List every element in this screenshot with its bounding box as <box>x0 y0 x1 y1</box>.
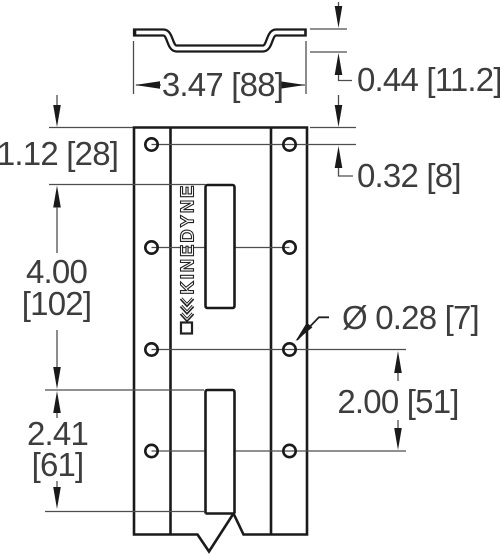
row 1 centerline <box>152 144 357 146</box>
slot-top extension (1.12/4.00) <box>49 184 206 186</box>
extension line left of profile <box>133 41 135 94</box>
dimension line 3.47 left segment <box>136 84 161 86</box>
svg-text:0.44 [11.2]: 0.44 [11.2] <box>357 61 500 98</box>
row 3 centerline <box>152 349 407 351</box>
svg-text:[61]: [61] <box>32 446 84 483</box>
svg-text:1.12 [28]: 1.12 [28] <box>0 135 118 172</box>
hole r3 right <box>283 343 295 355</box>
hole r1 left <box>145 138 157 150</box>
chevron 1 <box>181 299 193 306</box>
profile view hat-section strip <box>133 33 307 49</box>
chevron 3 <box>181 314 193 321</box>
top edge extension left (1.12) <box>49 127 133 129</box>
arrow above 0.44 <box>338 2 340 8</box>
dimension line 3.47 right segment <box>284 84 305 86</box>
svg-text:[102]: [102] <box>22 285 91 322</box>
hole r4 left <box>145 445 157 457</box>
2.00 dim upper arrow <box>394 351 402 373</box>
chevron 2 <box>181 306 193 313</box>
slot-bottom extension (2.41) <box>45 511 204 513</box>
KINEDYNE logo rotated <box>177 186 198 334</box>
arrowhead left <box>135 81 160 88</box>
lower slot <box>206 390 235 514</box>
hole r2 right <box>283 241 295 253</box>
2.41 dim lower arrow <box>56 481 58 488</box>
svg-text:Ø 0.28 [7]: Ø 0.28 [7] <box>342 299 479 336</box>
lower slot top extension (4.00/2.41) <box>45 389 204 391</box>
hole r2 left <box>145 241 157 253</box>
arrow below 0.44 with leader <box>335 53 343 75</box>
inner vertical line right <box>270 128 273 535</box>
hole diameter leader <box>297 317 329 340</box>
extension line bottom of channel (0.44 dim) <box>310 51 347 53</box>
2.41 dim upper arrow <box>53 391 61 413</box>
2.00 dim lower arrow <box>397 420 399 429</box>
svg-text:2.00 [51]: 2.00 [51] <box>337 383 458 420</box>
arrow above 1.12 <box>56 95 58 106</box>
upper slot <box>206 185 235 308</box>
square mark <box>181 323 192 334</box>
arrowhead right <box>280 81 305 88</box>
hole r1 right <box>283 138 295 150</box>
inner vertical line left <box>169 128 172 535</box>
row 2 centerline <box>152 247 290 249</box>
0.32 arrow below with leader <box>335 146 343 168</box>
4.00 dim upper arrow <box>53 186 61 208</box>
svg-text:0.32 [8]: 0.32 [8] <box>357 157 461 194</box>
extension line top of flange (0.44 dim) <box>310 28 347 30</box>
svg-text:KINEDYNE: KINEDYNE <box>177 186 198 295</box>
hole r4 right <box>283 445 295 457</box>
4.00 dim lower arrow <box>56 330 58 368</box>
svg-text:3.47 [88]: 3.47 [88] <box>162 66 283 103</box>
plate outline with break V at bottom <box>134 128 307 552</box>
hole r3 left <box>145 343 157 355</box>
extension right of plate top edge (0.32) <box>310 127 356 129</box>
extension line right of profile <box>305 41 307 94</box>
row 4 centerline <box>152 450 407 452</box>
0.32 arrow above <box>338 95 340 106</box>
